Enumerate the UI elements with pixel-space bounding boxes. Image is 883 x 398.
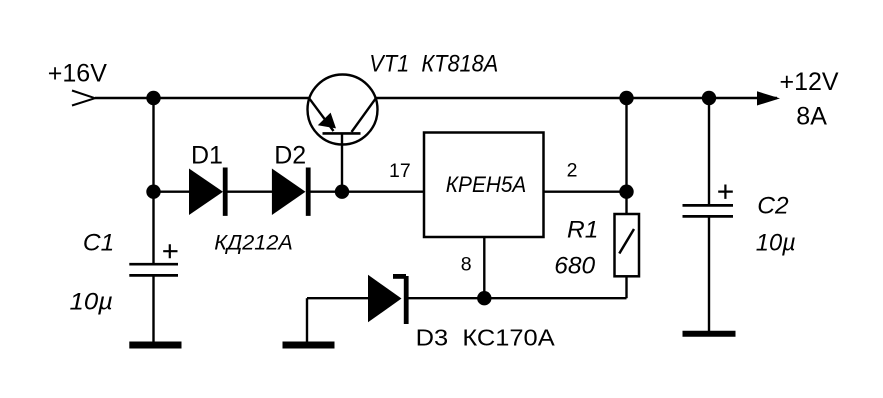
svg-text:D2: D2 [274, 141, 306, 169]
svg-text:R1: R1 [567, 217, 598, 244]
svg-text:КРЕН5А: КРЕН5А [446, 172, 527, 197]
svg-text:+12V: +12V [780, 68, 839, 96]
svg-text:10µ: 10µ [70, 288, 114, 315]
svg-text:8: 8 [461, 254, 472, 276]
svg-text:VT1 КТ818А: VT1 КТ818А [369, 50, 498, 77]
svg-text:D3 КС170А: D3 КС170А [416, 324, 555, 350]
svg-text:D1: D1 [191, 141, 223, 169]
svg-text:8A: 8A [796, 102, 827, 130]
svg-text:17: 17 [389, 160, 411, 182]
svg-text:10µ: 10µ [756, 230, 796, 257]
svg-text:КД212А: КД212А [214, 231, 292, 255]
svg-text:680: 680 [554, 253, 595, 280]
svg-text:C1: C1 [83, 230, 114, 257]
svg-text:+16V: +16V [48, 59, 107, 87]
svg-text:2: 2 [567, 160, 578, 182]
svg-text:C2: C2 [757, 193, 789, 220]
